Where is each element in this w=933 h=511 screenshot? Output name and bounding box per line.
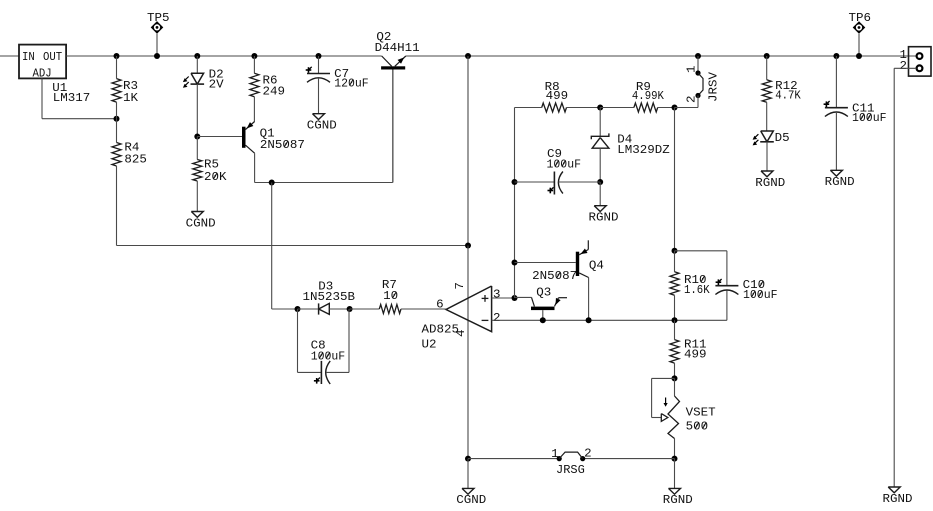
svg-text:4.99K: 4.99K: [632, 90, 664, 103]
transistor Q1 2N5087: [197, 122, 305, 154]
svg-text:Q3: Q3: [536, 287, 551, 300]
ground RGND below D4: [589, 182, 619, 225]
svg-text:R5: R5: [204, 159, 219, 172]
resistor R11 499: [670, 320, 707, 378]
transistor Q3: [515, 287, 568, 321]
wire bus from U1 OUT to Q2 collector: [66, 55, 382, 57]
resistor R9 4.99K: [600, 81, 674, 112]
wire bus from Q2 emitter to connector pin 1: [406, 55, 917, 57]
svg-text:VSET: VSET: [686, 407, 716, 420]
resistor R8 499: [515, 81, 601, 112]
node ADJ/R3/R4 junction: [114, 116, 120, 122]
svg-text:2N5087: 2N5087: [260, 139, 305, 152]
capacitor C10 100uF: [675, 251, 778, 320]
test point TP5: [147, 12, 170, 59]
wire +in column up to R8 left: [514, 108, 516, 299]
resistor R4 825: [112, 119, 147, 246]
svg-text:U2: U2: [422, 338, 437, 351]
wire bus down to V+ node: [467, 56, 469, 246]
node Q3 base on -in wire: [540, 317, 546, 323]
node op-amp V- / CGND / JRSG left: [465, 456, 471, 462]
capacitor C8 100uF: [298, 309, 350, 384]
svg-text:Q4: Q4: [589, 259, 604, 272]
resistor R6 249: [250, 56, 285, 122]
svg-text:499: 499: [684, 349, 707, 362]
resistor R5 20K: [193, 137, 227, 212]
svg-text:2: 2: [686, 95, 699, 103]
svg-text:1: 1: [551, 448, 559, 461]
node V+ / R4 wire junction: [465, 243, 471, 249]
svg-text:100uF: 100uF: [311, 351, 346, 364]
svg-text:LM329DZ: LM329DZ: [617, 144, 670, 157]
node D3 left / C8 left: [295, 306, 301, 312]
node D2/R5/Q1 base junction: [194, 134, 200, 140]
node bus/C11: [833, 53, 839, 59]
node R10 top / C10 top: [672, 248, 678, 254]
wire JRSG left segment: [468, 458, 559, 460]
ground RGND below C11: [825, 170, 855, 189]
connector J1 2-pin header: [894, 47, 931, 487]
node R9 / JRSV / R10 column: [672, 105, 678, 111]
ground CGND bottom center: [456, 459, 486, 508]
svg-text:20K: 20K: [204, 171, 227, 184]
svg-text:RGND: RGND: [663, 494, 693, 507]
node bus/R3: [114, 53, 120, 59]
test point TP6: [849, 12, 872, 59]
svg-text:LM317: LM317: [53, 92, 91, 105]
svg-text:JRSV: JRSV: [708, 72, 721, 102]
svg-text:7: 7: [454, 282, 467, 290]
svg-text:825: 825: [124, 154, 147, 167]
capacitor C7 120uF: [306, 56, 369, 114]
wire R9 node down to R10: [674, 108, 676, 251]
node bus/R6: [251, 53, 257, 59]
svg-text:D5: D5: [775, 132, 790, 145]
capacitor C11 100uF: [824, 56, 887, 170]
node D3 right / C8 right: [347, 306, 353, 312]
resistor R7 10: [350, 279, 446, 314]
ground RGND below VSET: [663, 459, 693, 508]
wire op-amp -in (pin 2) to R10/R11 node: [492, 319, 675, 321]
svg-text:4.7K: 4.7K: [775, 90, 801, 103]
svg-text:100uF: 100uF: [852, 112, 887, 125]
node VSET bottom / JRSG right: [672, 456, 678, 462]
potentiometer VSET 500: [652, 378, 716, 458]
wire input from left edge to U1 IN: [0, 55, 19, 57]
svg-text:100uF: 100uF: [547, 159, 582, 172]
node bus/R12: [764, 53, 770, 59]
node +in / Q3 collector lead: [512, 295, 518, 301]
svg-text:AD825: AD825: [422, 324, 460, 337]
svg-text:JRSG: JRSG: [556, 464, 585, 477]
node C9 left: [512, 179, 518, 185]
svg-text:500: 500: [686, 421, 709, 434]
svg-text:2N5087: 2N5087: [532, 270, 577, 283]
svg-text:RGND: RGND: [755, 177, 785, 190]
diode D3 1N5235B: [298, 281, 356, 315]
wire U1 ADJ pin to R3/R4 junction: [42, 78, 117, 118]
svg-text:CGND: CGND: [456, 494, 486, 507]
node R10/R11/C10/-in junction: [672, 317, 678, 323]
capacitor C9 100uF: [515, 148, 601, 195]
node Q4 base: [512, 260, 518, 266]
LED D2 2V: [183, 56, 224, 137]
ground RGND below D5: [755, 171, 785, 190]
svg-text:249: 249: [263, 86, 286, 99]
svg-text:RGND: RGND: [589, 212, 619, 225]
svg-text:1K: 1K: [123, 92, 138, 105]
svg-text:1.6K: 1.6K: [684, 284, 710, 297]
node Q4 collector on -in wire: [586, 317, 592, 323]
svg-text:2: 2: [900, 60, 908, 73]
svg-text:RGND: RGND: [825, 176, 855, 189]
svg-text:CGND: CGND: [307, 120, 337, 133]
jumper JRSG: [551, 448, 592, 478]
svg-text:2: 2: [493, 312, 501, 325]
wire Q1 collector node down to D3/R7 row: [272, 183, 298, 310]
zener diode D4 LM329DZ: [591, 108, 670, 183]
node R8/R9/D4: [597, 105, 603, 111]
svg-text:CGND: CGND: [186, 217, 216, 230]
ground CGND below R5: [186, 212, 216, 231]
svg-text:D44H11: D44H11: [375, 42, 420, 55]
op-amp U2 AD825: [422, 246, 501, 459]
node Q1 collector / D3 branch: [269, 180, 275, 186]
wire op-amp output pin 6 to R7: [401, 308, 446, 310]
wire op-amp +in (pin 3) to Q3/Q4 column: [492, 297, 515, 299]
LED D5: [753, 131, 790, 171]
resistor R3 1K: [112, 56, 138, 119]
transistor Q2 D44H11: [375, 31, 420, 183]
svg-text:499: 499: [546, 90, 569, 103]
node bus/D2: [194, 53, 200, 59]
wire R4 bottom to op-amp V+ column: [117, 245, 469, 247]
svg-text:1: 1: [686, 65, 699, 73]
svg-text:ADJ: ADJ: [33, 67, 52, 80]
wire Q1 collector to Q2 base: [255, 70, 393, 183]
svg-text:120uF: 120uF: [334, 78, 369, 91]
node bus / op-amp V+ feed: [465, 53, 471, 59]
transistor Q4 2N5087: [515, 240, 604, 320]
ground CGND below C7: [307, 114, 337, 133]
svg-text:RGND: RGND: [883, 493, 913, 506]
resistor R10 1.6K: [670, 251, 710, 320]
svg-text:100uF: 100uF: [743, 289, 778, 302]
svg-text:3: 3: [493, 289, 501, 302]
svg-text:1N5235B: 1N5235B: [303, 291, 356, 304]
svg-text:2: 2: [584, 448, 592, 461]
wire JRSG right segment: [583, 458, 675, 460]
ground RGND bottom right: [883, 487, 913, 506]
svg-text:IN: IN: [22, 51, 35, 64]
jumper JRSV: [675, 53, 721, 108]
svg-text:OUT: OUT: [43, 51, 62, 64]
node R11 / VSET wiper junction: [672, 375, 678, 381]
resistor R12 4.7K: [762, 56, 801, 131]
node bus/C7: [316, 53, 322, 59]
svg-text:2V: 2V: [209, 79, 224, 92]
node D4 / C9 right: [597, 179, 603, 185]
regulator U1 LM317: [19, 45, 90, 105]
